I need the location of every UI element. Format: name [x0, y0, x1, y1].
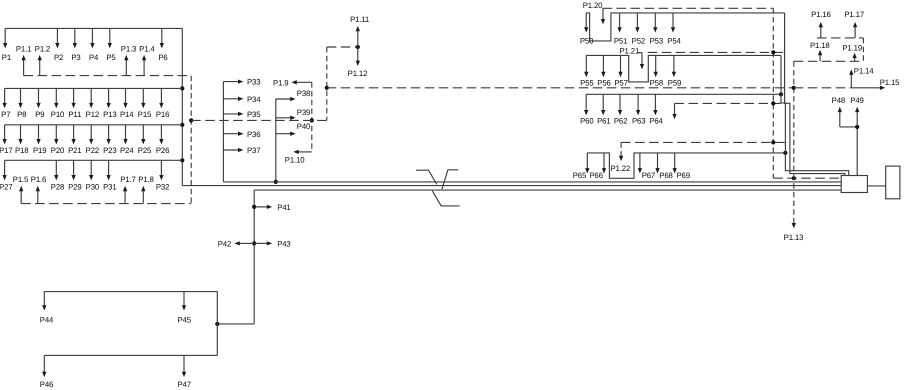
svg-text:P1.16: P1.16: [811, 10, 831, 19]
arrow P19: [38, 125, 40, 142]
svg-text:P51: P51: [614, 37, 627, 46]
arrow P1.7: [124, 189, 126, 204]
svg-text:P63: P63: [632, 117, 645, 126]
wire P38-P40 feeder vertical: [275, 99, 277, 182]
wire line B (from left block to interface box): [182, 185, 841, 187]
arrow P46: [43, 355, 45, 374]
arrow P59: [673, 55, 675, 74]
break symbol upper-right stub: [442, 170, 458, 189]
svg-text:P1.20: P1.20: [583, 1, 603, 10]
wire dashed P1.9-P1.10 vertical: [311, 82, 313, 152]
arrow P11: [73, 88, 75, 105]
arrow P13: [108, 88, 110, 105]
wire dashed into interface box: [773, 177, 841, 179]
svg-text:P55: P55: [580, 79, 594, 88]
svg-text:P10: P10: [51, 110, 65, 119]
svg-text:P62: P62: [614, 117, 627, 126]
arrow P26: [160, 125, 162, 142]
svg-text:P30: P30: [86, 183, 100, 192]
wire feeder to box junction: [217, 323, 254, 325]
wire dashed P1.20 drop rail: [772, 8, 774, 178]
arrow P1.10: [296, 151, 312, 153]
svg-text:P3: P3: [71, 53, 80, 62]
arrow P63: [637, 94, 639, 112]
arrow P25: [142, 125, 144, 142]
arrow P28: [55, 160, 57, 177]
wire dashed corner rail: [862, 38, 864, 61]
svg-text:P1.8: P1.8: [138, 175, 153, 184]
svg-text:P4: P4: [89, 53, 99, 62]
svg-text:P52: P52: [632, 37, 645, 46]
arrow P1.12: [357, 47, 359, 63]
svg-text:P45: P45: [177, 316, 191, 325]
svg-text:P24: P24: [120, 146, 134, 155]
arrow P5: [109, 28, 111, 45]
wire dashed cross line (left): [191, 119, 327, 121]
wire box bottom rail: [44, 354, 217, 356]
arrow P65: [586, 153, 588, 171]
svg-text:P46: P46: [40, 380, 53, 389]
wire bus row2 (P7-P16 feed line): [5, 87, 183, 89]
arrow P2: [56, 28, 58, 45]
arrow P17: [4, 125, 6, 142]
wire dashed line P1.18/P1.19: [794, 60, 864, 62]
arrow P29: [73, 160, 75, 177]
arrow P1.19: [854, 56, 856, 62]
svg-text:P1.18: P1.18: [810, 41, 830, 50]
svg-text:P1.5: P1.5: [13, 175, 29, 184]
arrow P1.9: [294, 81, 311, 83]
svg-text:P33: P33: [247, 78, 260, 87]
wire bus row P65-P69 with P1.22 notch: [587, 153, 785, 178]
arrow P1.21: [641, 53, 643, 67]
svg-text:P1.17: P1.17: [844, 10, 864, 19]
svg-text:P7: P7: [1, 110, 10, 119]
node junction rail/row4: [180, 158, 184, 162]
svg-text:P1.1: P1.1: [16, 45, 31, 54]
arrow P32: [160, 160, 162, 177]
svg-text:P65: P65: [573, 171, 587, 180]
arrow P9: [38, 88, 40, 105]
arrow P56: [602, 55, 604, 74]
wire dashed return line bottom (P1.5-P1.8): [21, 203, 191, 205]
arrow P6: [161, 28, 163, 45]
arrow P1.15: [851, 87, 882, 89]
arrow P20: [55, 125, 57, 142]
arrow P4: [91, 28, 93, 45]
arrow P7: [4, 88, 6, 105]
svg-text:P64: P64: [649, 117, 663, 126]
arrow P43: [254, 242, 269, 244]
arrow P1.1: [23, 58, 25, 76]
node P41 branch: [252, 205, 256, 209]
svg-text:P50: P50: [580, 37, 594, 46]
arrow P1.11: [357, 29, 359, 47]
svg-text:P1.7: P1.7: [120, 175, 135, 184]
arrow P38: [276, 98, 293, 100]
svg-text:P28: P28: [51, 183, 64, 192]
arrow P69: [674, 153, 676, 171]
svg-text:P1.14: P1.14: [854, 67, 874, 76]
svg-text:P67: P67: [642, 171, 655, 180]
svg-text:P43: P43: [277, 240, 290, 249]
arrow P1.14: [850, 72, 852, 88]
svg-text:P5: P5: [106, 53, 116, 62]
wire bus row P51-P54 with P50 notch: [586, 13, 784, 41]
node junction on box right rail: [215, 322, 219, 326]
svg-text:P60: P60: [580, 117, 594, 126]
node junction rail/row3: [180, 123, 184, 127]
wire right rail V1 (from row P51-P54): [785, 13, 845, 176]
svg-text:P13: P13: [103, 110, 116, 119]
wire dashed line P1.16/P1.17: [817, 37, 863, 39]
wire bus row P60-P64: [586, 93, 781, 95]
svg-text:P19: P19: [33, 146, 46, 155]
svg-text:P66: P66: [589, 171, 602, 180]
arrow P1.8: [142, 189, 144, 204]
svg-text:P12: P12: [86, 110, 99, 119]
arrow P1: [4, 28, 6, 45]
arrow P27: [4, 160, 6, 177]
arrow P36: [223, 133, 240, 135]
svg-text:P14: P14: [120, 110, 134, 119]
arrow P18: [20, 125, 22, 142]
wire dashed return line top (P1.1-P1.4): [24, 75, 192, 77]
wire right rail V2 (from row P55-P59): [781, 55, 849, 175]
arrow P50: [585, 13, 587, 30]
node junction row P65 / right rail: [783, 151, 787, 155]
interface box: [841, 176, 867, 193]
arrow P1.22 (dashed drop): [620, 142, 622, 154]
arrow P66: [603, 153, 605, 171]
node junction P1.20 rail / P1.21 line: [771, 50, 775, 54]
arrow P1.4: [143, 58, 145, 76]
arrow P30: [90, 160, 92, 177]
wire dashed stub to P1.11 node: [327, 46, 358, 48]
svg-text:P8: P8: [17, 110, 26, 119]
arrow P60: [585, 94, 587, 112]
svg-text:P41: P41: [277, 203, 290, 212]
wire P41 feeder vertical: [253, 190, 255, 324]
svg-text:P25: P25: [138, 146, 152, 155]
svg-text:P1.11: P1.11: [350, 15, 369, 24]
svg-text:P29: P29: [68, 183, 81, 192]
arrow P54: [672, 13, 674, 30]
svg-text:P15: P15: [138, 110, 152, 119]
svg-text:P61: P61: [597, 117, 610, 126]
node junction row P60 / right rail V2: [779, 92, 783, 96]
arrow P1.3: [125, 58, 127, 76]
svg-text:P47: P47: [177, 380, 190, 389]
svg-text:P1.3: P1.3: [121, 45, 136, 54]
svg-text:P26: P26: [156, 146, 169, 155]
arrow P57: [620, 55, 622, 74]
wire dashed spine right segment: [794, 87, 852, 89]
svg-text:P39: P39: [297, 108, 310, 117]
arrow P12: [90, 88, 92, 105]
node dashed rail junction: [189, 118, 193, 122]
svg-text:P58: P58: [650, 79, 663, 88]
wire box top rail: [44, 291, 217, 293]
arrow P10: [55, 88, 57, 105]
wire dashed branch line y103: [675, 102, 782, 104]
node junction riser / spine: [325, 86, 329, 90]
break symbol lower diagonal: [432, 191, 459, 206]
svg-text:P53: P53: [650, 37, 663, 46]
arrow P1.18: [819, 53, 821, 61]
arrow P14: [125, 88, 127, 105]
wire dashed spine (center long dashed line): [327, 87, 794, 89]
svg-text:P1.6: P1.6: [31, 175, 46, 184]
svg-text:P42: P42: [218, 240, 231, 249]
svg-text:P37: P37: [247, 146, 260, 155]
svg-text:P1.10: P1.10: [285, 155, 305, 164]
arrow P31: [108, 160, 110, 177]
svg-text:P2: P2: [54, 53, 63, 62]
wire dashed P1.22 line: [621, 141, 785, 143]
svg-text:P23: P23: [103, 146, 116, 155]
node P42/P43 branch: [252, 241, 256, 245]
arrow P8: [20, 88, 22, 105]
arrow P68: [657, 153, 659, 171]
arrow P47: [183, 355, 185, 374]
arrow P34: [223, 98, 240, 100]
arrow P61: [602, 94, 604, 112]
svg-text:P1.4: P1.4: [139, 45, 155, 54]
node junction P1.20 rail / y103 line: [771, 101, 775, 105]
svg-text:P1.21: P1.21: [620, 46, 640, 55]
svg-text:P69: P69: [677, 171, 690, 180]
svg-text:P56: P56: [597, 79, 610, 88]
wire box connector: [867, 185, 885, 187]
svg-text:P1.12: P1.12: [348, 69, 368, 78]
arrow P51: [619, 13, 621, 30]
arrow P1.6: [37, 189, 39, 204]
svg-text:P22: P22: [86, 146, 99, 155]
svg-text:P17: P17: [0, 146, 13, 155]
arrow P58: [655, 55, 657, 74]
break symbol upper-left stub: [416, 170, 437, 184]
node junction rail/row2: [180, 86, 184, 90]
svg-text:P44: P44: [40, 316, 54, 325]
svg-text:P38: P38: [297, 89, 310, 98]
arrow P22: [90, 125, 92, 142]
arrow P62: [619, 94, 621, 112]
node junction P38 feeder / line A: [274, 180, 278, 184]
arrow P37: [223, 149, 240, 151]
node P1.11/P1.12 branch: [356, 45, 360, 49]
arrow P48: [839, 110, 841, 127]
wire dashed riser to P1.11: [326, 47, 328, 120]
wire bus row1 (P1-P6 feed line): [5, 27, 182, 29]
arrow P15: [142, 88, 144, 105]
svg-text:P32: P32: [156, 183, 169, 192]
wire bus row P55-P59 with P1.21 notch: [586, 55, 781, 82]
node junction P1.9 rail / dashed cross line: [310, 118, 314, 122]
wire left block right rail: [181, 28, 183, 185]
svg-text:P1.9: P1.9: [273, 79, 288, 88]
terminal box: [886, 166, 900, 199]
arrow P24: [125, 125, 127, 142]
svg-text:P54: P54: [667, 37, 681, 46]
svg-text:P57: P57: [614, 79, 627, 88]
arrow P16: [160, 88, 162, 105]
svg-text:P21: P21: [68, 146, 81, 155]
svg-text:P6: P6: [158, 53, 167, 62]
svg-text:P1.22: P1.22: [610, 164, 630, 173]
svg-text:P59: P59: [668, 79, 681, 88]
svg-text:P34: P34: [247, 95, 261, 104]
arrow P53: [654, 13, 656, 30]
wire line C (from P41 feeder to interface box): [254, 189, 841, 191]
arrow P1.17: [854, 25, 856, 38]
arrow P40: [276, 133, 293, 135]
svg-text:P16: P16: [156, 110, 169, 119]
arrow P35: [223, 113, 240, 115]
svg-text:P35: P35: [247, 110, 261, 119]
wire bus row4 (P27-P32 feed line): [5, 159, 183, 161]
node junction P1.20 rail / P1.22 line: [771, 140, 775, 144]
arrow P23: [108, 125, 110, 142]
svg-text:P31: P31: [103, 183, 116, 192]
svg-text:P1.2: P1.2: [35, 45, 50, 54]
arrow P42: [237, 242, 254, 244]
wire dashed return right rail: [190, 76, 192, 204]
arrow P1.20: [602, 8, 604, 21]
arrow P33: [223, 81, 240, 83]
wire box right rail: [216, 292, 218, 356]
arrow P44: [43, 292, 45, 308]
arrow P3: [74, 28, 76, 45]
wire line A (from P33 feeder to interface box): [223, 181, 841, 183]
wire P33-P37 feeder vertical: [222, 82, 224, 182]
arrow P45: [183, 292, 185, 308]
svg-text:P9: P9: [35, 110, 44, 119]
arrow P1.16: [820, 25, 822, 38]
arrow P67: [639, 153, 641, 171]
arrow P64: [654, 94, 656, 112]
svg-text:P40: P40: [297, 122, 311, 131]
arrow P1.13: [793, 221, 795, 225]
arrow P39: [276, 117, 293, 119]
svg-text:P1: P1: [2, 53, 11, 62]
arrow P41: [254, 206, 269, 208]
svg-text:P27: P27: [0, 183, 13, 192]
svg-text:P18: P18: [15, 146, 28, 155]
node junction dashed cross / P1.13 rail: [792, 176, 796, 180]
wire dashed P1.13 rail: [793, 61, 795, 221]
arrow P1.5: [20, 189, 22, 204]
wire P48/P49 branch: [840, 126, 857, 128]
svg-text:P20: P20: [51, 146, 65, 155]
svg-text:P36: P36: [247, 130, 260, 139]
arrow unlabeled branch: [674, 103, 676, 116]
arrow P1.2: [39, 58, 41, 76]
node P48/P49 junction: [855, 125, 859, 129]
wire bus row3 (P17-P26 feed line): [5, 124, 183, 126]
node junction P1.13 rail / spine: [792, 86, 796, 90]
arrow P49: [856, 110, 858, 127]
svg-text:P1.15: P1.15: [880, 78, 900, 87]
arrow P21: [73, 125, 75, 142]
svg-text:P48: P48: [832, 96, 845, 105]
svg-text:P68: P68: [659, 171, 672, 180]
svg-text:P1.13: P1.13: [784, 233, 804, 242]
svg-text:P1.19: P1.19: [842, 44, 862, 53]
svg-text:P49: P49: [850, 96, 863, 105]
arrow P55: [585, 55, 587, 74]
svg-text:P11: P11: [68, 110, 81, 119]
arrow P52: [636, 13, 638, 30]
